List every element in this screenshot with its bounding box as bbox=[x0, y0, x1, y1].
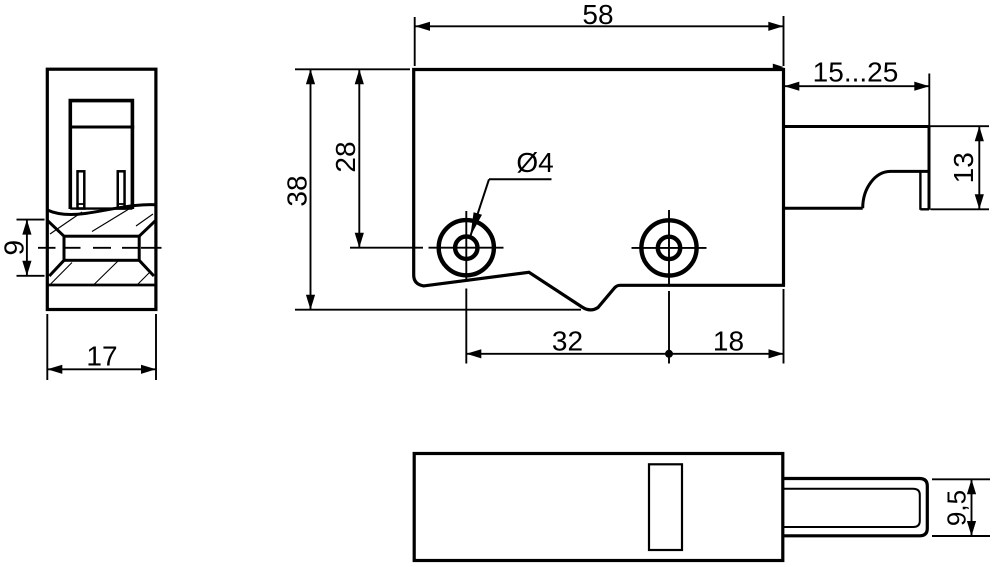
svg-text:28: 28 bbox=[330, 141, 361, 172]
svg-text:18: 18 bbox=[713, 325, 744, 356]
svg-text:9,5: 9,5 bbox=[942, 490, 972, 526]
svg-text:58: 58 bbox=[582, 0, 613, 30]
svg-text:15...25: 15...25 bbox=[813, 57, 899, 88]
svg-text:38: 38 bbox=[282, 175, 313, 206]
svg-text:17: 17 bbox=[86, 341, 117, 372]
svg-text:9: 9 bbox=[0, 240, 30, 256]
svg-text:32: 32 bbox=[552, 325, 583, 356]
svg-text:13: 13 bbox=[948, 152, 979, 183]
svg-text:Ø4: Ø4 bbox=[516, 147, 553, 178]
